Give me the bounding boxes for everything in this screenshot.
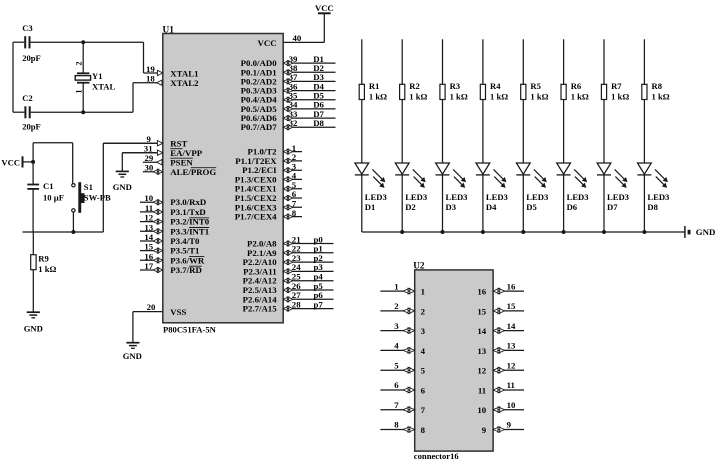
pin 28 P2.7/A15 net p7 (243, 299, 334, 313)
svg-text:P3.0/RxD: P3.0/RxD (170, 197, 206, 207)
svg-text:1 kΩ: 1 kΩ (571, 91, 589, 101)
wire column 7 top (603, 39, 605, 84)
svg-text:1: 1 (421, 287, 425, 297)
svg-text:P3.1/TxD: P3.1/TxD (170, 207, 205, 217)
pin 23 P2.2/A10 net p2 (243, 253, 334, 267)
wire (13, 83, 133, 113)
svg-text:19: 19 (146, 64, 155, 74)
svg-text:1 kΩ: 1 kΩ (611, 91, 629, 101)
pin 8 P1.7/CEX4 (235, 208, 302, 222)
junction (31, 160, 35, 164)
wire (122, 153, 163, 172)
pin 4 (U2 left) (380, 341, 425, 356)
wire (401, 175, 403, 232)
pin 14 (U2 right) (477, 321, 524, 336)
pin 29 PSEN (143, 153, 194, 168)
pin 11 P3.1/TxD (140, 203, 206, 217)
pin 27 P2.6/A14 net p6 (243, 290, 334, 304)
wire (482, 175, 484, 232)
pin 1 (U2 left) (380, 281, 425, 296)
svg-text:LED3: LED3 (486, 192, 508, 202)
svg-text:17: 17 (144, 261, 153, 271)
svg-text:R9: R9 (38, 253, 49, 263)
pin 5 P1.4/CEX1 (235, 180, 302, 194)
pin 20 VSS (147, 302, 187, 317)
svg-text:29: 29 (145, 153, 154, 163)
pin 16 (U2 right) (477, 281, 524, 296)
capacitor C2 (22, 93, 41, 131)
junction (71, 230, 75, 234)
wire column 2 top (401, 39, 403, 84)
pin 8 (U2 left) (380, 420, 425, 435)
svg-text:16: 16 (507, 281, 516, 291)
svg-text:12: 12 (477, 366, 486, 376)
wire (401, 100, 403, 164)
svg-text:XTAL2: XTAL2 (170, 78, 199, 88)
svg-text:20pF: 20pF (22, 53, 41, 63)
pin 24 P2.3/A11 net p3 (243, 262, 333, 276)
junction (602, 230, 606, 234)
LED D3 (436, 163, 468, 212)
svg-text:R7: R7 (611, 81, 622, 91)
svg-text:LED3: LED3 (567, 192, 589, 202)
svg-text:GND: GND (123, 351, 142, 361)
pin 6 P1.5/CEX2 (235, 189, 302, 203)
svg-text:R4: R4 (490, 81, 501, 91)
svg-text:R1: R1 (369, 81, 380, 91)
pin 26 P2.5/A13 net p5 (243, 281, 334, 295)
pin 4 P1.3/CEX0 (235, 171, 302, 185)
switch S1 (72, 182, 111, 213)
svg-text:10: 10 (144, 193, 153, 203)
svg-text:7: 7 (394, 400, 399, 410)
svg-text:20: 20 (147, 302, 156, 312)
wire (361, 175, 363, 232)
pin 35 P0.4/AD4 net D5 (241, 91, 336, 105)
svg-text:16: 16 (477, 287, 486, 297)
svg-text:GND: GND (113, 182, 132, 192)
svg-text:9: 9 (147, 134, 152, 144)
svg-text:D6: D6 (567, 202, 578, 212)
svg-text:15: 15 (477, 306, 486, 316)
junction (81, 40, 85, 44)
svg-text:R2: R2 (409, 81, 420, 91)
junction (562, 230, 566, 234)
wire (643, 175, 645, 232)
svg-text:31: 31 (144, 144, 153, 154)
junction (642, 230, 646, 234)
svg-text:GND: GND (24, 323, 43, 333)
ground (123, 343, 142, 362)
wire (32, 143, 34, 185)
LED D6 (557, 163, 589, 212)
svg-text:4: 4 (394, 341, 399, 351)
resistor R9 (31, 232, 57, 312)
svg-text:16: 16 (144, 251, 153, 261)
pin 36 P0.3/AD3 net D4 (241, 81, 336, 95)
svg-text:D8: D8 (313, 118, 324, 128)
pin 5 (U2 left) (380, 360, 425, 375)
junction (521, 230, 525, 234)
junction (481, 230, 485, 234)
svg-text:C1: C1 (43, 181, 54, 191)
wire column 1 top (361, 39, 363, 84)
svg-text:1 kΩ: 1 kΩ (490, 91, 508, 101)
pin 40 VCC (258, 13, 325, 48)
svg-text:R5: R5 (530, 81, 541, 91)
pin 15 P3.5/T1 (140, 242, 199, 256)
svg-text:14: 14 (507, 321, 516, 331)
svg-text:R8: R8 (652, 81, 663, 91)
pin 25 P2.4/A12 net p4 (243, 272, 334, 286)
pin 9 RST (103, 134, 187, 149)
LED D8 (637, 163, 669, 212)
wire column 8 top (643, 39, 645, 84)
pin 2 P1.1/T2EX (235, 152, 302, 166)
pin 12 P3.2/INT0 (140, 213, 210, 227)
svg-text:11: 11 (145, 203, 153, 213)
svg-text:2: 2 (75, 62, 84, 66)
ground (24, 312, 43, 333)
svg-text:XTAL: XTAL (92, 81, 116, 91)
svg-text:LED3: LED3 (405, 192, 427, 202)
svg-text:D4: D4 (486, 202, 497, 212)
wire (133, 312, 163, 343)
wire (603, 100, 605, 164)
wire (103, 143, 163, 232)
svg-text:XTAL1: XTAL1 (170, 68, 198, 78)
svg-text:8: 8 (292, 208, 297, 218)
wire (563, 100, 565, 164)
wire (32, 189, 34, 232)
wire (33, 143, 73, 184)
LED D5 (516, 163, 548, 212)
wire LED ground bus (362, 231, 685, 233)
svg-text:U2: U2 (413, 261, 425, 271)
svg-text:13: 13 (507, 341, 516, 351)
svg-text:12: 12 (507, 360, 516, 370)
junction (81, 110, 85, 114)
svg-text:2: 2 (394, 301, 399, 311)
pin 10 P3.0/RxD (140, 193, 206, 207)
svg-text:9: 9 (507, 420, 512, 430)
svg-text:VCC: VCC (258, 38, 277, 48)
junction (441, 230, 445, 234)
svg-text:28: 28 (292, 299, 301, 309)
svg-text:2: 2 (421, 306, 426, 316)
wire (82, 83, 84, 113)
svg-text:15: 15 (507, 301, 516, 311)
pin 16 P3.6/WR (140, 251, 205, 265)
svg-text:VSS: VSS (170, 307, 186, 317)
connector U2 (413, 261, 493, 461)
svg-text:U1: U1 (163, 26, 175, 36)
svg-text:VCC: VCC (1, 157, 20, 167)
svg-text:C3: C3 (22, 23, 33, 33)
wire (482, 100, 484, 164)
pin 2 (U2 left) (380, 301, 425, 316)
wire (72, 212, 74, 232)
wire (563, 175, 565, 232)
svg-text:P3.5/T1: P3.5/T1 (170, 246, 199, 256)
pin 18 XTAL2 (133, 74, 199, 89)
svg-text:P0.7/AD7: P0.7/AD7 (241, 122, 278, 132)
wire (643, 100, 645, 164)
pin 1 P1.0/T2 (248, 143, 302, 157)
pin 22 P2.1/A9 net p1 (247, 244, 333, 258)
pin 14 P3.4/T0 (140, 232, 200, 246)
svg-text:LED3: LED3 (365, 192, 387, 202)
svg-text:EA/VPP: EA/VPP (170, 148, 202, 158)
pin 3 (U2 left) (380, 321, 425, 336)
svg-text:P80C51FA-5N: P80C51FA-5N (163, 324, 217, 334)
svg-text:D5: D5 (526, 202, 537, 212)
svg-text:30: 30 (145, 163, 154, 173)
LED D1 (355, 163, 387, 212)
wire (23, 231, 104, 233)
svg-text:1 kΩ: 1 kΩ (530, 91, 548, 101)
svg-text:P2.7/A15: P2.7/A15 (243, 304, 278, 314)
pin 6 (U2 left) (380, 380, 425, 395)
svg-text:1 kΩ: 1 kΩ (450, 91, 468, 101)
capacitor C3 (22, 23, 41, 63)
ground GND bus tap (685, 226, 715, 238)
svg-text:P1.7/CEX4: P1.7/CEX4 (235, 212, 277, 222)
wire column 5 top (522, 39, 524, 84)
pin 13 P3.3/INT1 (140, 222, 209, 236)
svg-text:18: 18 (146, 74, 155, 84)
svg-text:S1: S1 (84, 182, 93, 192)
svg-text:1: 1 (75, 90, 84, 94)
svg-text:VCC: VCC (315, 3, 334, 13)
svg-text:R3: R3 (450, 81, 461, 91)
resistor R8 (642, 81, 670, 102)
svg-text:D7: D7 (607, 202, 618, 212)
svg-text:7: 7 (421, 405, 426, 415)
svg-text:10 µF: 10 µF (43, 192, 64, 202)
power VCC (left) (1, 156, 33, 167)
svg-text:8: 8 (421, 425, 426, 435)
svg-text:15: 15 (144, 242, 153, 252)
svg-text:p7: p7 (314, 299, 324, 309)
svg-text:9: 9 (482, 425, 487, 435)
svg-text:13: 13 (477, 346, 486, 356)
pin 17 P3.7/RD (140, 261, 202, 275)
crystal Y1 (75, 62, 116, 94)
svg-text:20pF: 20pF (22, 122, 41, 132)
wire (13, 42, 144, 73)
ground (113, 171, 132, 192)
svg-text:14: 14 (144, 232, 153, 242)
svg-text:5: 5 (421, 366, 426, 376)
svg-text:3: 3 (394, 321, 399, 331)
resistor R7 (601, 81, 629, 102)
svg-text:3: 3 (421, 326, 426, 336)
pin 38 P0.1/AD1 net D2 (241, 63, 336, 77)
svg-text:5: 5 (394, 360, 399, 370)
pin 12 (U2 right) (477, 360, 524, 375)
pin 7 P1.6/CEX3 (235, 199, 302, 213)
svg-text:11: 11 (478, 386, 486, 396)
svg-text:ALE/PROG: ALE/PROG (170, 167, 216, 177)
svg-text:11: 11 (507, 380, 515, 390)
svg-text:PSEN: PSEN (170, 158, 193, 168)
pin 37 P0.2/AD2 net D3 (241, 72, 336, 86)
svg-text:10: 10 (507, 400, 516, 410)
LED D2 (395, 163, 427, 212)
wire column 3 top (442, 39, 444, 84)
pin 30 ALE/PROG (143, 163, 217, 178)
svg-text:LED3: LED3 (526, 192, 548, 202)
LED D4 (476, 163, 508, 212)
svg-text:connector16: connector16 (414, 451, 460, 461)
resistor R2 (400, 81, 428, 102)
svg-text:6: 6 (394, 380, 399, 390)
svg-text:Y1: Y1 (92, 71, 103, 81)
resistor R5 (521, 81, 549, 102)
wire (522, 175, 524, 232)
wire (522, 100, 524, 164)
IC U1 P80C51FA-5N (163, 26, 284, 335)
svg-text:P3.4/T0: P3.4/T0 (170, 236, 200, 246)
resistor R4 (480, 81, 508, 102)
svg-text:C2: C2 (22, 93, 33, 103)
pin 19 XTAL1 (144, 64, 199, 79)
pin 10 (U2 right) (477, 400, 524, 415)
junction (400, 230, 404, 234)
svg-text:1: 1 (394, 281, 398, 291)
svg-text:LED3: LED3 (647, 192, 669, 202)
pin 11 (U2 right) (478, 380, 524, 395)
pin 9 (U2 right) (482, 420, 524, 435)
pin 21 P2.0/A8 net p0 (247, 234, 333, 248)
svg-text:6: 6 (421, 386, 426, 396)
capacitor C1 (27, 181, 64, 202)
svg-text:D8: D8 (647, 202, 658, 212)
wire (361, 100, 363, 164)
svg-text:14: 14 (477, 326, 486, 336)
svg-text:1 kΩ: 1 kΩ (38, 264, 56, 274)
pin 7 (U2 left) (380, 400, 425, 415)
wire (442, 175, 444, 232)
pin 33 P0.6/AD6 net D7 (241, 109, 336, 123)
pin 3 P1.2/ECI (242, 161, 302, 175)
svg-text:12: 12 (144, 213, 153, 223)
svg-text:13: 13 (144, 222, 153, 232)
resistor R1 (359, 81, 387, 102)
wire (442, 100, 444, 164)
svg-text:D1: D1 (365, 202, 376, 212)
wire (12, 42, 14, 112)
svg-text:LED3: LED3 (446, 192, 468, 202)
svg-text:8: 8 (394, 420, 399, 430)
wire (603, 175, 605, 232)
svg-text:SW-PB: SW-PB (84, 193, 111, 203)
svg-text:D3: D3 (446, 202, 457, 212)
pin 13 (U2 right) (477, 341, 524, 356)
svg-text:4: 4 (421, 346, 426, 356)
wire (82, 42, 84, 73)
pin 15 (U2 right) (477, 301, 524, 316)
svg-text:1 kΩ: 1 kΩ (652, 91, 670, 101)
resistor R3 (440, 81, 468, 102)
resistor R6 (561, 81, 589, 102)
pin 32 P0.7/AD7 net D8 (241, 118, 336, 132)
pin 39 P0.0/AD0 net D1 (241, 54, 336, 68)
svg-text:D2: D2 (405, 202, 416, 212)
pin 31 EA/VPP (122, 144, 202, 159)
svg-text:GND: GND (696, 227, 716, 237)
svg-text:LED3: LED3 (607, 192, 629, 202)
power VCC (top) (315, 3, 334, 13)
svg-text:1 kΩ: 1 kΩ (369, 91, 387, 101)
wire column 6 top (563, 39, 565, 84)
svg-text:RST: RST (170, 139, 187, 149)
svg-text:40: 40 (293, 33, 302, 43)
pin 34 P0.5/AD5 net D6 (241, 100, 336, 114)
svg-text:10: 10 (477, 405, 486, 415)
wire column 4 top (482, 39, 484, 84)
svg-text:1 kΩ: 1 kΩ (409, 91, 427, 101)
svg-text:32: 32 (289, 118, 298, 128)
LED D7 (597, 163, 629, 212)
svg-text:R6: R6 (571, 81, 582, 91)
